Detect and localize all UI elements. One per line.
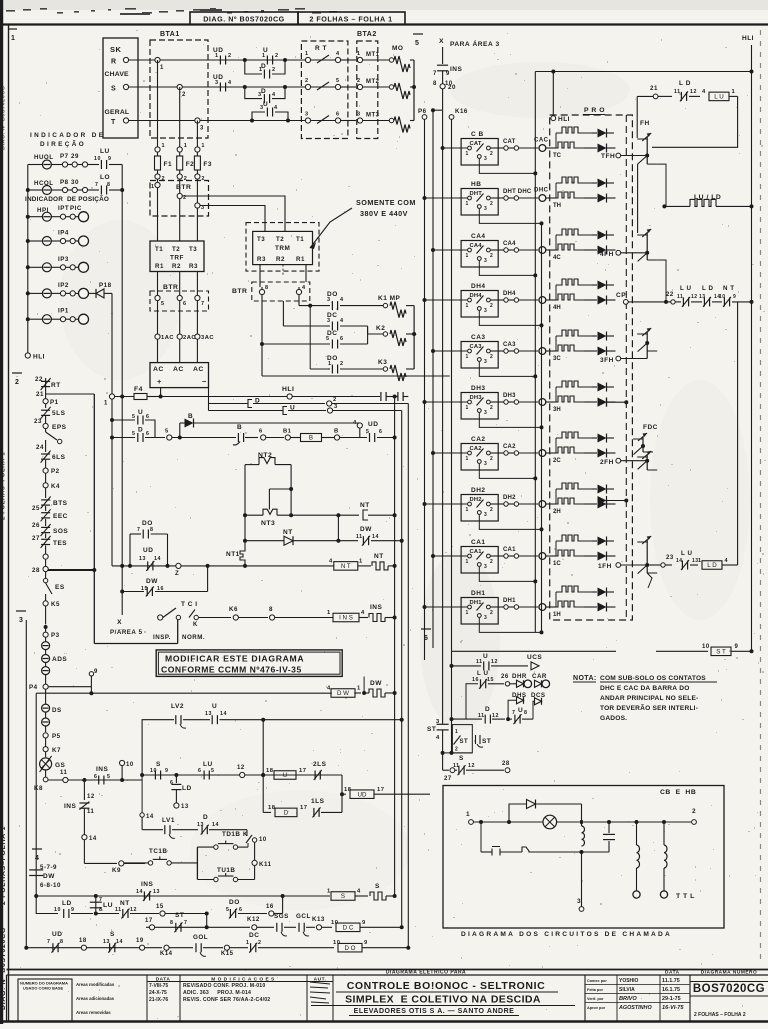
diode extra 402.2	[598, 398, 607, 407]
wire row780 to LV1	[141, 775, 143, 812]
contact K 10	[246, 835, 252, 843]
box UD 18-17 row794	[342, 793, 346, 795]
svg-text:4: 4	[274, 105, 278, 111]
svg-text:Feita por: Feita por	[587, 988, 604, 992]
svg-text:R2: R2	[276, 256, 285, 263]
wire S phase	[129, 86, 305, 88]
svg-text:P18: P18	[99, 282, 112, 289]
svg-text:4H: 4H	[553, 305, 561, 311]
svg-text:TU1B: TU1B	[217, 867, 235, 874]
header box DIAG	[190, 12, 298, 25]
svg-text:DH2: DH2	[503, 495, 516, 501]
svg-text:27: 27	[32, 535, 40, 542]
svg-text:UD: UD	[52, 931, 62, 938]
wires BTR to TRM	[182, 196, 285, 232]
cap pair HLI row right	[380, 392, 382, 401]
svg-text:13: 13	[181, 804, 189, 810]
svg-text:7: 7	[137, 527, 140, 533]
svg-text:24: 24	[36, 444, 44, 451]
svg-text:HLI: HLI	[558, 116, 570, 123]
contact B hook	[237, 433, 239, 442]
svg-text:U: U	[212, 703, 217, 710]
diode 4H upper	[592, 284, 597, 286]
svg-text:1: 1	[328, 361, 332, 367]
svg-text:MT2: MT2	[366, 79, 380, 85]
svg-text:AC: AC	[173, 366, 184, 373]
terminal K13	[316, 925, 321, 930]
svg-text:8: 8	[60, 939, 63, 945]
terminal mid chain	[43, 554, 48, 559]
page scan edge strip	[0, 0, 3, 1024]
svg-text:L U: L U	[681, 550, 692, 557]
svg-text:K12: K12	[247, 916, 260, 923]
svg-text:TES: TES	[53, 540, 67, 547]
svg-text:2: 2	[490, 201, 493, 207]
contact pair DH1	[491, 606, 504, 608]
svg-text:14: 14	[146, 814, 154, 820]
lamp sym ADS	[42, 655, 50, 663]
contact U 3-4 on T	[266, 108, 268, 117]
terminal CA3 selector circle	[539, 348, 546, 355]
svg-text:CB E HB: CB E HB	[660, 789, 696, 796]
svg-text:2 FOLHAS–FOLHA 1: 2 FOLHAS–FOLHA 1	[1, 452, 7, 520]
resistor MT2	[363, 86, 389, 88]
terminal DH4 selector circle	[539, 297, 546, 304]
terminal 19	[140, 945, 145, 950]
node diode join a	[624, 400, 628, 404]
svg-text:INS: INS	[141, 881, 154, 888]
svg-text:7-VIII-75: 7-VIII-75	[149, 983, 168, 989]
svg-text:Z: Z	[175, 570, 179, 577]
lamp DS	[42, 704, 50, 712]
svg-text:2: 2	[490, 151, 493, 157]
svg-text:4: 4	[353, 420, 357, 426]
svg-text:2: 2	[333, 397, 337, 403]
diode 3C upper	[592, 335, 597, 337]
svg-text:1: 1	[466, 354, 469, 360]
svg-text:1: 1	[162, 143, 166, 149]
svg-text:B: B	[309, 435, 313, 442]
svg-text:CA2: CA2	[503, 444, 516, 450]
svg-text:8: 8	[150, 527, 153, 533]
terminal TTL left	[633, 891, 640, 898]
contact DO 3-4	[299, 305, 330, 307]
TRM drop wires	[259, 265, 261, 287]
svg-text:3FH: 3FH	[600, 357, 614, 364]
svg-text:9: 9	[71, 907, 74, 913]
dashed box TRM	[246, 223, 319, 272]
wire row 947	[26, 947, 162, 949]
svg-text:3: 3	[484, 206, 487, 212]
svg-text:T2: T2	[172, 246, 180, 253]
svg-text:5: 5	[132, 414, 135, 420]
svg-text:1: 1	[466, 456, 469, 462]
BTA1 contact 1	[155, 57, 160, 62]
diode extra 500.5	[598, 496, 607, 505]
svg-text:R1: R1	[155, 263, 164, 270]
svg-text:6LS: 6LS	[52, 454, 66, 461]
relay coil TH group	[553, 177, 592, 209]
wire row diode NT	[245, 540, 284, 542]
contact UD 3-4 on S	[219, 83, 221, 92]
svg-text:K16: K16	[455, 108, 468, 115]
contact pair DHT DHC	[491, 197, 504, 199]
svg-text:DHT: DHT	[470, 191, 483, 197]
svg-text:DHR: DHR	[512, 673, 527, 680]
fuse F3	[196, 121, 198, 148]
title aut scribbles	[310, 982, 330, 1003]
svg-text:CAC: CAC	[534, 138, 549, 144]
svg-text:INS: INS	[96, 766, 109, 773]
stub 9	[48, 686, 91, 688]
terminal K6	[233, 615, 238, 620]
transistor T2 4FH	[646, 233, 648, 260]
zone mark 6	[421, 628, 431, 630]
svg-text:INSP.: INSP.	[153, 634, 171, 641]
svg-text:8: 8	[170, 920, 173, 926]
svg-text:29-1-75: 29-1-75	[662, 996, 681, 1002]
NT2 right vertical	[290, 465, 292, 516]
svg-text:2: 2	[692, 808, 696, 815]
svg-text:3: 3	[484, 564, 487, 570]
diode 3H row	[584, 401, 597, 403]
terminal K12	[252, 925, 257, 930]
svg-text:P1: P1	[50, 399, 59, 406]
zone mark 1	[9, 28, 17, 30]
diode chamada	[509, 804, 526, 822]
svg-text:1: 1	[466, 405, 469, 411]
BTA1 contact 2	[177, 84, 182, 89]
terminal P2	[43, 468, 48, 473]
wire R phase	[129, 59, 305, 61]
svg-text:7: 7	[433, 71, 437, 77]
wire row NT3	[245, 514, 263, 516]
svg-text:2: 2	[490, 610, 493, 616]
svg-text:5: 5	[132, 431, 135, 437]
svg-text:GOL: GOL	[193, 934, 208, 941]
dashed box BTA2	[357, 41, 378, 139]
chamada notch contact	[522, 847, 536, 852]
wire CA4 feed	[433, 249, 467, 251]
wire 2FH row	[616, 458, 621, 463]
svg-text:K3: K3	[378, 359, 387, 366]
relay box DH3	[461, 393, 498, 420]
svg-text:Verif. por: Verif. por	[587, 997, 604, 1001]
switch TCI INSP NORM	[158, 615, 163, 620]
svg-text:K6: K6	[229, 606, 238, 613]
svg-text:3: 3	[305, 112, 309, 118]
svg-text:17: 17	[300, 805, 307, 811]
svg-text:1: 1	[184, 143, 188, 149]
svg-text:1: 1	[466, 811, 470, 818]
svg-text:3: 3	[484, 615, 487, 621]
relay box CA1	[461, 547, 498, 574]
zone mark 5	[413, 33, 423, 35]
svg-text:5: 5	[211, 768, 214, 774]
terminal 16	[269, 911, 274, 916]
terminal B right	[334, 435, 339, 440]
svg-text:NT: NT	[283, 529, 293, 536]
wire DH1 feed	[425, 606, 468, 608]
contact LU 16-15 ucs	[466, 684, 478, 719]
terminal K7	[43, 747, 48, 752]
svg-text:1: 1	[246, 940, 249, 946]
relay coil 2H group	[553, 483, 592, 515]
capacitor chamada	[607, 820, 611, 824]
wire 4FH row	[616, 250, 621, 255]
wire tie 338	[337, 515, 339, 541]
bus 535 vertical	[534, 72, 536, 633]
switch blade 24	[46, 432, 57, 440]
svg-text:CA4: CA4	[503, 241, 516, 247]
terminal K5	[43, 601, 48, 606]
svg-text:T1: T1	[155, 246, 163, 253]
svg-text:LV2: LV2	[171, 703, 184, 710]
wire 3FH row	[616, 356, 621, 361]
svg-text:11: 11	[60, 770, 68, 776]
svg-text:1: 1	[201, 143, 205, 149]
terminal 20	[440, 84, 445, 89]
resistor box B	[301, 434, 322, 442]
svg-text:PIC: PIC	[70, 205, 82, 212]
svg-text:REVIS. CONF SER 76/AA-2-C4/02: REVIS. CONF SER 76/AA-2-C4/02	[183, 997, 270, 1003]
svg-text:LU: LU	[100, 148, 110, 155]
svg-text:CAT: CAT	[470, 141, 482, 147]
svg-text:LO: LO	[100, 174, 110, 181]
svg-text:Comec por: Comec por	[587, 979, 607, 983]
terminal HB selector circle	[539, 195, 546, 202]
contact TES	[41, 538, 50, 540]
svg-text:1: 1	[466, 507, 469, 513]
svg-text:SK: SK	[110, 45, 122, 54]
lamp IP1 row	[42, 315, 51, 324]
svg-text:LU: LU	[103, 902, 113, 909]
svg-text:L U: L U	[680, 285, 691, 292]
wire row 927	[146, 926, 250, 928]
wire FH emitter	[657, 164, 666, 206]
diode B branch	[179, 423, 181, 438]
wire DH4 feed	[425, 299, 468, 301]
title cell numero diagrama	[18, 979, 72, 1021]
title diagrama numero	[689, 975, 691, 1021]
svg-text:13: 13	[205, 711, 212, 717]
title cell areas	[71, 983, 73, 1021]
diode 1C row	[584, 555, 597, 557]
svg-text:13: 13	[153, 889, 160, 895]
svg-text:6: 6	[170, 780, 173, 786]
svg-text:8: 8	[524, 710, 527, 716]
RT contacts	[305, 57, 310, 62]
svg-text:LD: LD	[62, 900, 72, 907]
svg-text:DIAGRAMA ELETRICO PARA: DIAGRAMA ELETRICO PARA	[386, 970, 466, 976]
lamp IP4 row	[42, 237, 51, 246]
contact NT 11-12	[96, 913, 119, 915]
svg-text:16: 16	[266, 904, 274, 910]
svg-text:9: 9	[108, 156, 111, 162]
vertical from HUOL	[121, 165, 123, 616]
bus mid 408.3	[407, 404, 409, 948]
svg-text:EEC: EEC	[53, 513, 68, 520]
svg-text:REVISADO CONF. PROJ. M-010: REVISADO CONF. PROJ. M-010	[183, 983, 265, 989]
svg-text:K2: K2	[376, 325, 385, 332]
svg-text:DW: DW	[146, 578, 158, 585]
svg-text:6: 6	[340, 336, 344, 342]
svg-text:2: 2	[490, 354, 493, 360]
svg-text:BTA1: BTA1	[160, 31, 180, 38]
svg-text:4FH: 4FH	[600, 251, 614, 258]
svg-text:17: 17	[145, 918, 153, 924]
svg-text:30: 30	[71, 179, 79, 186]
terminal 28 ucs	[505, 768, 510, 773]
svg-text:11: 11	[478, 713, 485, 719]
svg-text:COM SUB-SOLO OS CONTATOS: COM SUB-SOLO OS CONTATOS	[600, 675, 706, 682]
svg-text:DH3: DH3	[471, 385, 486, 392]
NT2 left vertical	[244, 465, 246, 549]
resistor MO lead MT1	[363, 59, 389, 61]
contact D 3-4 bypass	[245, 87, 262, 99]
svg-text:1: 1	[305, 51, 309, 57]
svg-text:X: X	[117, 619, 122, 626]
box CB E HB	[443, 786, 724, 929]
svg-text:UD: UD	[143, 547, 153, 554]
svg-text:P8: P8	[60, 179, 69, 186]
svg-text:1: 1	[359, 559, 363, 565]
terminal 5	[167, 435, 172, 440]
contact LV2	[142, 720, 174, 775]
svg-text:3: 3	[258, 92, 262, 98]
svg-text:8: 8	[269, 606, 273, 613]
svg-text:3: 3	[484, 308, 487, 314]
svg-text:B: B	[237, 424, 242, 431]
svg-text:CA3: CA3	[470, 344, 483, 350]
transformer TRF	[150, 241, 204, 272]
svg-text:DO: DO	[229, 899, 240, 906]
svg-text:I N D I C A D O R D E: I N D I C A D O R D E	[30, 132, 104, 139]
node row b	[205, 912, 209, 916]
wire C B coil drop	[479, 159, 535, 174]
svg-text:HB: HB	[471, 181, 481, 188]
relay box C B	[461, 139, 498, 166]
svg-text:2: 2	[305, 78, 309, 84]
terminal S	[123, 84, 128, 89]
wire CA2 coil drop	[479, 464, 535, 479]
svg-text:SGS: SGS	[274, 913, 289, 920]
svg-text:ST: ST	[460, 739, 469, 745]
dashed inner line PRO	[625, 115, 627, 620]
svg-text:7: 7	[184, 920, 187, 926]
svg-text:P R O: P R O	[584, 107, 605, 114]
sub row LD 10-9	[36, 896, 58, 914]
wire CP row	[623, 300, 628, 305]
svg-text:S: S	[110, 931, 115, 938]
terminal 4 drop	[357, 423, 362, 428]
svg-text:DIAG. Nº B0S7020CG: DIAG. Nº B0S7020CG	[1, 86, 7, 151]
svg-text:L D: L D	[679, 80, 691, 87]
diode TC row	[584, 147, 597, 149]
svg-text:F2: F2	[186, 161, 195, 168]
svg-text:IP1: IP1	[58, 308, 69, 315]
svg-text:CA4: CA4	[471, 233, 486, 240]
svg-text:AGOSTINHO: AGOSTINHO	[618, 1005, 652, 1011]
lamp IP2 row diode P18	[42, 289, 51, 298]
svg-text:1C: 1C	[553, 561, 561, 567]
title names col	[584, 975, 586, 1021]
svg-text:2LS: 2LS	[313, 761, 327, 768]
diode 4C upper	[592, 234, 597, 236]
terminal Z	[176, 563, 181, 568]
svg-text:2: 2	[455, 747, 458, 753]
svg-text:L U: L U	[714, 94, 723, 101]
relay box DH4	[461, 291, 498, 318]
bus mid 401.7	[401, 411, 403, 928]
bus 433	[432, 110, 434, 648]
svg-text:11: 11	[356, 534, 363, 540]
svg-text:DH2: DH2	[470, 497, 482, 503]
svg-text:S: S	[341, 893, 345, 900]
terminal K11	[252, 860, 257, 865]
svg-text:U: U	[283, 772, 287, 779]
contact U 5-6 bypass	[112, 419, 135, 421]
top border line	[0, 23, 768, 25]
svg-text:1LS: 1LS	[311, 798, 325, 805]
svg-text:11: 11	[677, 294, 683, 300]
svg-text:12: 12	[691, 294, 698, 300]
svg-text:6: 6	[146, 431, 149, 437]
svg-text:RT: RT	[51, 382, 61, 389]
svg-text:INDICADOR DE POSIÇÃO: INDICADOR DE POSIÇÃO	[25, 194, 109, 203]
svg-text:2: 2	[182, 92, 186, 98]
contact 6LS	[41, 453, 50, 455]
svg-text:14: 14	[372, 534, 379, 540]
svg-text:CA1: CA1	[470, 549, 483, 555]
lamp sym a	[42, 642, 50, 650]
svg-text:BOS7020CG: BOS7020CG	[693, 983, 765, 995]
dashed box PRO	[550, 115, 633, 620]
svg-text:18: 18	[266, 768, 274, 774]
diode 1C upper	[592, 540, 597, 542]
svg-text:S: S	[111, 86, 116, 93]
svg-text:Areas removidas: Areas removidas	[76, 1010, 111, 1015]
svg-text:−: −	[202, 377, 207, 386]
svg-text:ST: ST	[482, 738, 491, 745]
svg-text:7: 7	[99, 897, 102, 903]
svg-text:1: 1	[466, 303, 469, 309]
diode 2H upper	[592, 488, 597, 490]
svg-text:DO: DO	[142, 520, 153, 527]
svg-text:BRIVO: BRIVO	[619, 996, 637, 1002]
svg-text:LU: LU	[203, 761, 213, 768]
svg-text:HPI: HPI	[37, 207, 49, 214]
svg-text:2: 2	[272, 67, 276, 73]
svg-text:4: 4	[361, 610, 365, 616]
svg-text:1: 1	[732, 89, 736, 95]
svg-text:IPT: IPT	[58, 205, 69, 212]
svg-text:K13: K13	[312, 916, 325, 923]
terminal CA4 selector circle	[539, 247, 546, 254]
svg-text:4: 4	[302, 285, 306, 291]
svg-text:D C: D C	[343, 925, 354, 932]
svg-text:CONFORME CCMM Nº476-IV-35: CONFORME CCMM Nº476-IV-35	[161, 665, 302, 675]
svg-text:7: 7	[95, 182, 98, 188]
right page edge dashes	[760, 30, 762, 962]
svg-text:USADO COMO BASE: USADO COMO BASE	[23, 986, 64, 991]
svg-text:TRM: TRM	[275, 245, 290, 252]
svg-text:9: 9	[165, 768, 168, 774]
vertical from P18	[111, 293, 113, 566]
row D 2	[209, 403, 249, 405]
node 207	[206, 564, 210, 568]
svg-text:10: 10	[259, 837, 267, 843]
